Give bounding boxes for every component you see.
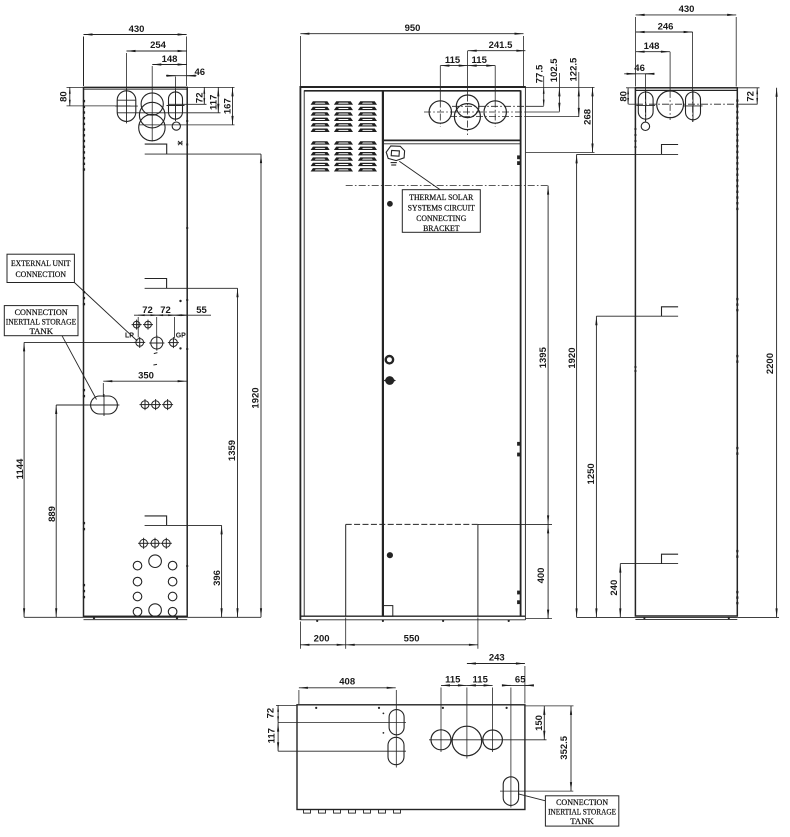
svg-text:102.5: 102.5 [549,58,560,82]
dimension 2200 [737,88,779,618]
svg-text:550: 550 [404,634,420,645]
right view stadium slot right [684,90,703,122]
svg-text:72: 72 [160,305,171,316]
dimension 46 left view [166,67,205,78]
leader external unit connection [74,283,137,342]
right view left edge marks [634,128,636,372]
louver grid [311,101,377,171]
svg-text:72: 72 [142,305,153,316]
right view top bracket [662,145,679,155]
dimension 115 115 front [440,55,495,66]
svg-text:148: 148 [644,41,660,52]
left view triple circles [139,66,165,142]
dimension 1359 [227,288,238,617]
svg-text:167: 167 [222,98,233,114]
svg-text:65: 65 [515,674,526,685]
right view bracket reference to 1920 [577,153,679,155]
right view right edge serrations [736,99,738,604]
svg-text:46: 46 [195,67,206,78]
svg-text:80: 80 [618,91,629,102]
svg-text:240: 240 [609,580,620,596]
left view big piping circles [149,555,162,568]
right view stadium slot left [636,90,655,121]
svg-text:430: 430 [679,4,695,15]
top view stadium slots [389,710,404,735]
front view cabinet outline [300,87,526,620]
dimension 80 left view [59,87,131,106]
door handle dot [384,376,397,385]
left view cabinet outline [84,87,188,619]
svg-text:46: 46 [634,63,645,74]
front view hidden rail centreline [346,185,548,187]
front view bottom compartment [346,524,478,616]
reference line 1144 to LP hole [24,341,136,343]
small connection holes pair [132,320,142,330]
leader thermal solar bracket [399,161,440,189]
leader inertial storage top view [518,794,545,801]
dimension 889 [47,405,58,617]
svg-text:EXTERNAL UNIT: EXTERNAL UNIT [11,259,71,268]
dimension 117 left view [117,87,220,112]
left view piping circle columns [133,561,177,616]
left view small circle [172,122,180,130]
top view witness dots [315,707,508,734]
svg-text:150: 150 [534,715,545,731]
thermal solar bracket detail [386,146,404,165]
svg-text:CONNECTING: CONNECTING [416,214,466,223]
central large hole [149,335,164,350]
svg-text:350: 350 [138,371,154,382]
svg-text:115: 115 [472,55,488,66]
dimension 268 [525,87,594,152]
dimension 1144 [15,342,26,617]
top view edge ticks [304,810,401,814]
svg-text:72: 72 [746,91,757,102]
door latch plate [383,606,393,617]
right view small circle [641,122,649,130]
door keyhole [386,356,393,363]
dimension 148 right view [636,41,670,52]
left view bracket reference line to 396 [145,524,222,526]
label box connection inertial storage tank left [4,306,78,336]
top view stadium crosshair [278,690,406,768]
left view bracket reference line to 1920 [145,153,261,155]
svg-text:72: 72 [194,93,205,104]
left view middle bracket [145,279,167,289]
svg-text:396: 396 [212,570,223,586]
row of three holes mid [140,399,151,410]
dimension 167 left view [139,87,234,125]
svg-text:148: 148 [162,54,178,65]
left view right edge marks [186,120,188,567]
svg-text:200: 200 [314,634,330,645]
label box external unit connection [7,254,74,282]
svg-text:55: 55 [196,305,207,316]
svg-text:122.5: 122.5 [568,57,579,81]
svg-text:1144: 1144 [15,458,26,479]
right view bracket reference to 240 [620,563,678,565]
svg-text:THERMAL SOLAR: THERMAL SOLAR [409,193,474,202]
asterisk mark [178,141,183,145]
left view left edge serrations [83,100,85,598]
svg-text:408: 408 [339,677,355,688]
left view oval storage connection [89,394,120,416]
svg-text:115: 115 [445,674,461,685]
dimension 350 [103,371,186,398]
dimension 115 115 top view [441,674,493,685]
compartment reference line to 1395-400 [478,523,552,525]
top view circle crosshairs [429,688,547,759]
dimension 102.5 [549,58,560,112]
dimension 1250 [586,316,597,617]
svg-text:246: 246 [658,21,674,32]
svg-text:268: 268 [583,109,594,125]
svg-text:115: 115 [445,55,461,66]
right view bracket reference to 1250 [596,315,678,317]
GP hole [168,337,179,348]
stadium interior line [117,99,135,101]
stadium2 centreline to 46 dim [175,77,177,121]
svg-text:1250: 1250 [586,463,597,484]
dimension 200 [300,622,345,649]
front view hinge marks [517,155,521,604]
dimension 400 [526,524,552,618]
dimension 80 right view [618,88,636,104]
dimension 65 [503,674,533,685]
top view oval crosshair [500,688,573,808]
left view top bracket [145,144,167,154]
small marks below central hole [153,353,157,365]
dimension 122.5 [568,57,579,117]
svg-text:BRACKET: BRACKET [423,224,460,233]
left view dimension baseline [24,616,261,618]
left view bottom bracket [145,516,167,526]
door dot upper [387,201,393,207]
svg-text:950: 950 [405,23,421,34]
dimension 72 117 top view [266,705,298,751]
dimension 77.5 [534,64,545,106]
dimension 430 left view [84,24,187,86]
svg-text:SYSTEMS CIRCUIT: SYSTEMS CIRCUIT [408,204,475,213]
dimension 430 right view [636,4,737,86]
svg-text:115: 115 [473,674,489,685]
svg-text:117: 117 [208,95,219,110]
dimension 352.5 [525,706,574,791]
dimension 72 72 55 connection holes [134,305,211,338]
left view stadium slot top-right [167,90,185,121]
door dot lower [387,552,393,558]
right view dimension baseline [577,616,738,618]
witness dots near right edge [179,300,181,350]
dimension 408 [299,677,396,704]
dimension 246 [636,21,693,32]
top view outline [297,705,525,810]
label box thermal solar bracket [402,190,480,234]
svg-text:TANK: TANK [570,817,594,826]
leader inertial storage tank [62,336,97,400]
dimension 1920 right view [567,154,578,617]
right view bottom bracket [662,554,679,563]
svg-text:GP: GP [176,333,186,340]
svg-text:243: 243 [489,653,505,664]
svg-text:CONNECTION: CONNECTION [16,270,67,279]
top view oval inertial connection [503,777,518,806]
dimension 1920 left view [251,154,262,617]
dimension 148 left view [152,54,186,65]
front view central divider [382,90,384,616]
dimension 396 [212,525,223,617]
dimension 46 right view [624,63,654,74]
left view stadium slot top-left [115,89,138,124]
dimension 150 [534,706,545,740]
left view bracket reference line to 1359 [145,287,238,289]
svg-text:1920: 1920 [567,348,578,369]
svg-text:1359: 1359 [227,440,238,461]
dimension 72 right view [737,88,759,104]
dimension 950 [300,23,523,86]
right view centrelines [629,32,758,122]
front view inner band under circles [383,140,521,143]
right view middle bracket [662,307,679,316]
svg-text:INERTIAL STORAGE: INERTIAL STORAGE [6,317,77,326]
row of three holes bottom [138,538,149,549]
top view circles [431,726,502,756]
dimension 240 [609,564,621,618]
right view base dots [643,617,730,619]
svg-text:CONNECTION: CONNECTION [556,798,608,807]
label box connection inertial storage tank bottom [545,796,618,826]
svg-text:CONNECTION: CONNECTION [15,308,68,317]
dimension 243 [467,653,525,704]
dimension 254 [127,40,187,90]
dimension 550 [346,618,478,649]
svg-text:INERTIAL STORAGE: INERTIAL STORAGE [548,808,616,817]
svg-text:352.5: 352.5 [559,735,570,759]
svg-text:430: 430 [129,24,145,35]
right view cabinet outline [635,88,737,620]
front view top connection circles [429,95,506,130]
front view base dots [316,620,510,622]
svg-text:400: 400 [536,568,547,584]
svg-text:889: 889 [47,506,58,522]
svg-text:72: 72 [266,708,277,719]
svg-text:TANK: TANK [30,327,54,336]
dimension 72 top left view [168,87,206,104]
dimension 1395 [538,186,549,525]
LP hole [134,337,145,348]
circle centrelines [424,51,579,135]
reference line 889 to oval [56,404,88,406]
svg-text:2200: 2200 [765,353,776,374]
svg-text:117: 117 [266,728,277,743]
left view base dots [93,617,178,619]
dimension 241.5 [468,40,526,51]
svg-text:1395: 1395 [538,346,549,368]
right view big circle [657,91,684,118]
svg-text:254: 254 [150,40,167,51]
svg-text:241.5: 241.5 [489,40,513,51]
svg-text:80: 80 [59,91,70,102]
svg-text:1920: 1920 [251,387,262,408]
